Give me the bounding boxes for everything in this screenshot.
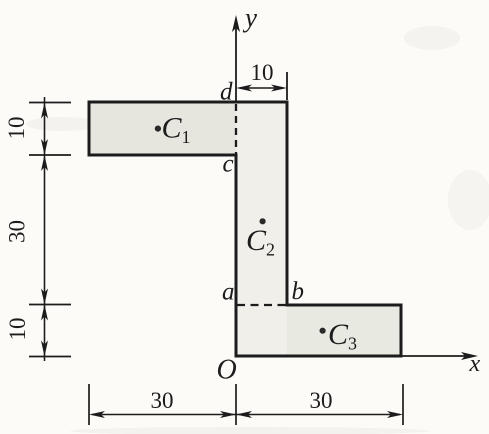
svg-text:d: d	[220, 79, 233, 106]
svg-text:30: 30	[151, 388, 174, 413]
x-axis	[401, 355, 465, 357]
dashed line a-b	[237, 304, 286, 306]
scan smudge right middle	[448, 170, 489, 230]
centroid dot C1	[155, 126, 161, 132]
svg-text:a: a	[222, 279, 235, 306]
scan smudge left	[26, 117, 98, 131]
top dim extension line	[286, 72, 288, 100]
svg-text:10: 10	[4, 117, 29, 140]
left dim tick 4	[29, 356, 71, 358]
left dim line	[44, 97, 46, 361]
left dim tick 3	[29, 304, 71, 306]
bottom flange fill	[287, 305, 401, 356]
svg-text:10: 10	[5, 318, 30, 341]
centroid dot C2	[260, 218, 266, 224]
svg-text:30: 30	[310, 388, 333, 413]
vertical web fill	[236, 102, 287, 356]
svg-text:b: b	[292, 278, 305, 305]
y-axis	[235, 27, 237, 101]
left dim tick 2	[29, 154, 71, 156]
Z-section outline	[89, 102, 401, 356]
y-axis arrowhead	[232, 15, 240, 32]
scan smudge bottom	[70, 427, 430, 434]
bottom left arrow	[89, 411, 105, 418]
bottom dim extension left	[88, 384, 90, 425]
left seg2 up arrow	[41, 155, 48, 171]
left seg3 down arrow	[41, 341, 48, 357]
x-axis arrowhead	[461, 352, 478, 360]
left seg1 down arrow	[41, 139, 48, 155]
top dim right arrow	[271, 85, 287, 92]
top dim line 10	[240, 87, 283, 89]
bottom mid-left arrow	[220, 411, 236, 418]
bottom dim line	[92, 414, 400, 416]
left seg1 up arrow	[41, 103, 48, 119]
scan smudge top right	[404, 26, 460, 50]
dashed line d-c	[235, 104, 237, 154]
bottom dim extension middle	[235, 384, 237, 425]
svg-text:y: y	[242, 3, 257, 33]
svg-text:10: 10	[251, 60, 274, 85]
centroid dot C3	[320, 328, 326, 334]
top dim left arrow	[236, 85, 252, 92]
bottom mid-right arrow	[236, 411, 252, 418]
top flange fill	[89, 102, 236, 155]
bottom dim extension right	[402, 384, 404, 425]
left dim tick 1	[29, 102, 71, 104]
bottom right arrow	[387, 411, 403, 418]
svg-text:c: c	[223, 151, 234, 178]
left seg3 up arrow	[41, 305, 48, 321]
svg-text:O: O	[217, 355, 237, 386]
left seg2 down arrow	[41, 289, 48, 305]
svg-text:x: x	[469, 351, 481, 377]
svg-text:30: 30	[5, 220, 30, 243]
